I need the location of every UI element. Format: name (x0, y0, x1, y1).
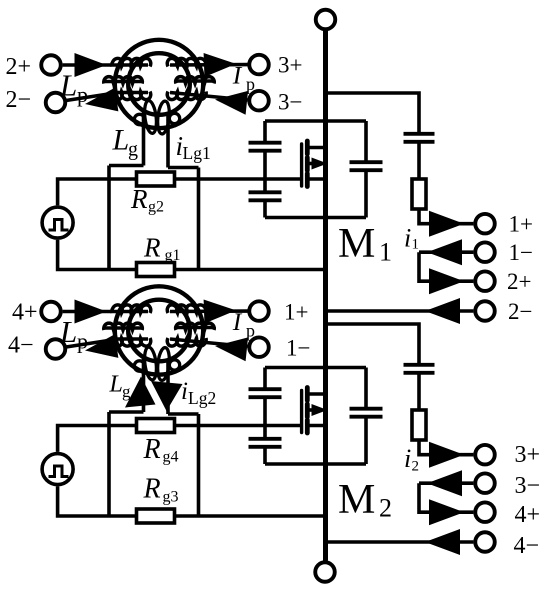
svg-text:3−: 3− (515, 473, 541, 499)
svg-text:4+: 4+ (12, 300, 38, 326)
svg-text:Lg1: Lg1 (183, 143, 211, 163)
svg-text:2−: 2− (6, 87, 32, 113)
svg-text:1+: 1+ (284, 300, 308, 325)
svg-text:R: R (130, 184, 148, 214)
svg-text:2+: 2+ (6, 54, 32, 80)
svg-text:M: M (338, 221, 375, 267)
svg-text:R: R (143, 233, 161, 263)
svg-text:2: 2 (412, 459, 420, 475)
svg-text:M: M (338, 477, 375, 523)
svg-text:L: L (112, 124, 130, 157)
svg-text:4−: 4− (8, 333, 34, 359)
svg-text:i: i (404, 224, 411, 253)
svg-text:3+: 3+ (515, 442, 541, 468)
svg-text:R: R (143, 434, 161, 465)
svg-text:Lg2: Lg2 (188, 388, 216, 408)
svg-text:1: 1 (412, 237, 420, 253)
svg-text:3+: 3+ (278, 53, 302, 78)
svg-text:3−: 3− (278, 90, 302, 115)
svg-text:i: i (181, 378, 188, 405)
svg-text:1+: 1+ (509, 212, 533, 237)
svg-text:g: g (128, 139, 138, 161)
svg-text:1: 1 (379, 238, 392, 267)
svg-text:R: R (143, 474, 161, 505)
svg-text:1−: 1− (286, 336, 310, 361)
svg-text:L: L (109, 372, 123, 398)
svg-text:g3: g3 (163, 489, 179, 506)
svg-text:4−: 4− (514, 533, 540, 559)
svg-text:g: g (122, 382, 131, 401)
svg-text:2−: 2− (508, 299, 532, 324)
svg-text:4+: 4+ (515, 502, 541, 528)
svg-text:g1: g1 (165, 247, 181, 264)
svg-text:g2: g2 (148, 199, 164, 216)
svg-text:1−: 1− (509, 240, 533, 265)
svg-text:2: 2 (379, 494, 392, 523)
svg-text:2+: 2+ (507, 269, 531, 294)
svg-text:i: i (404, 444, 411, 473)
svg-text:g4: g4 (163, 449, 179, 466)
